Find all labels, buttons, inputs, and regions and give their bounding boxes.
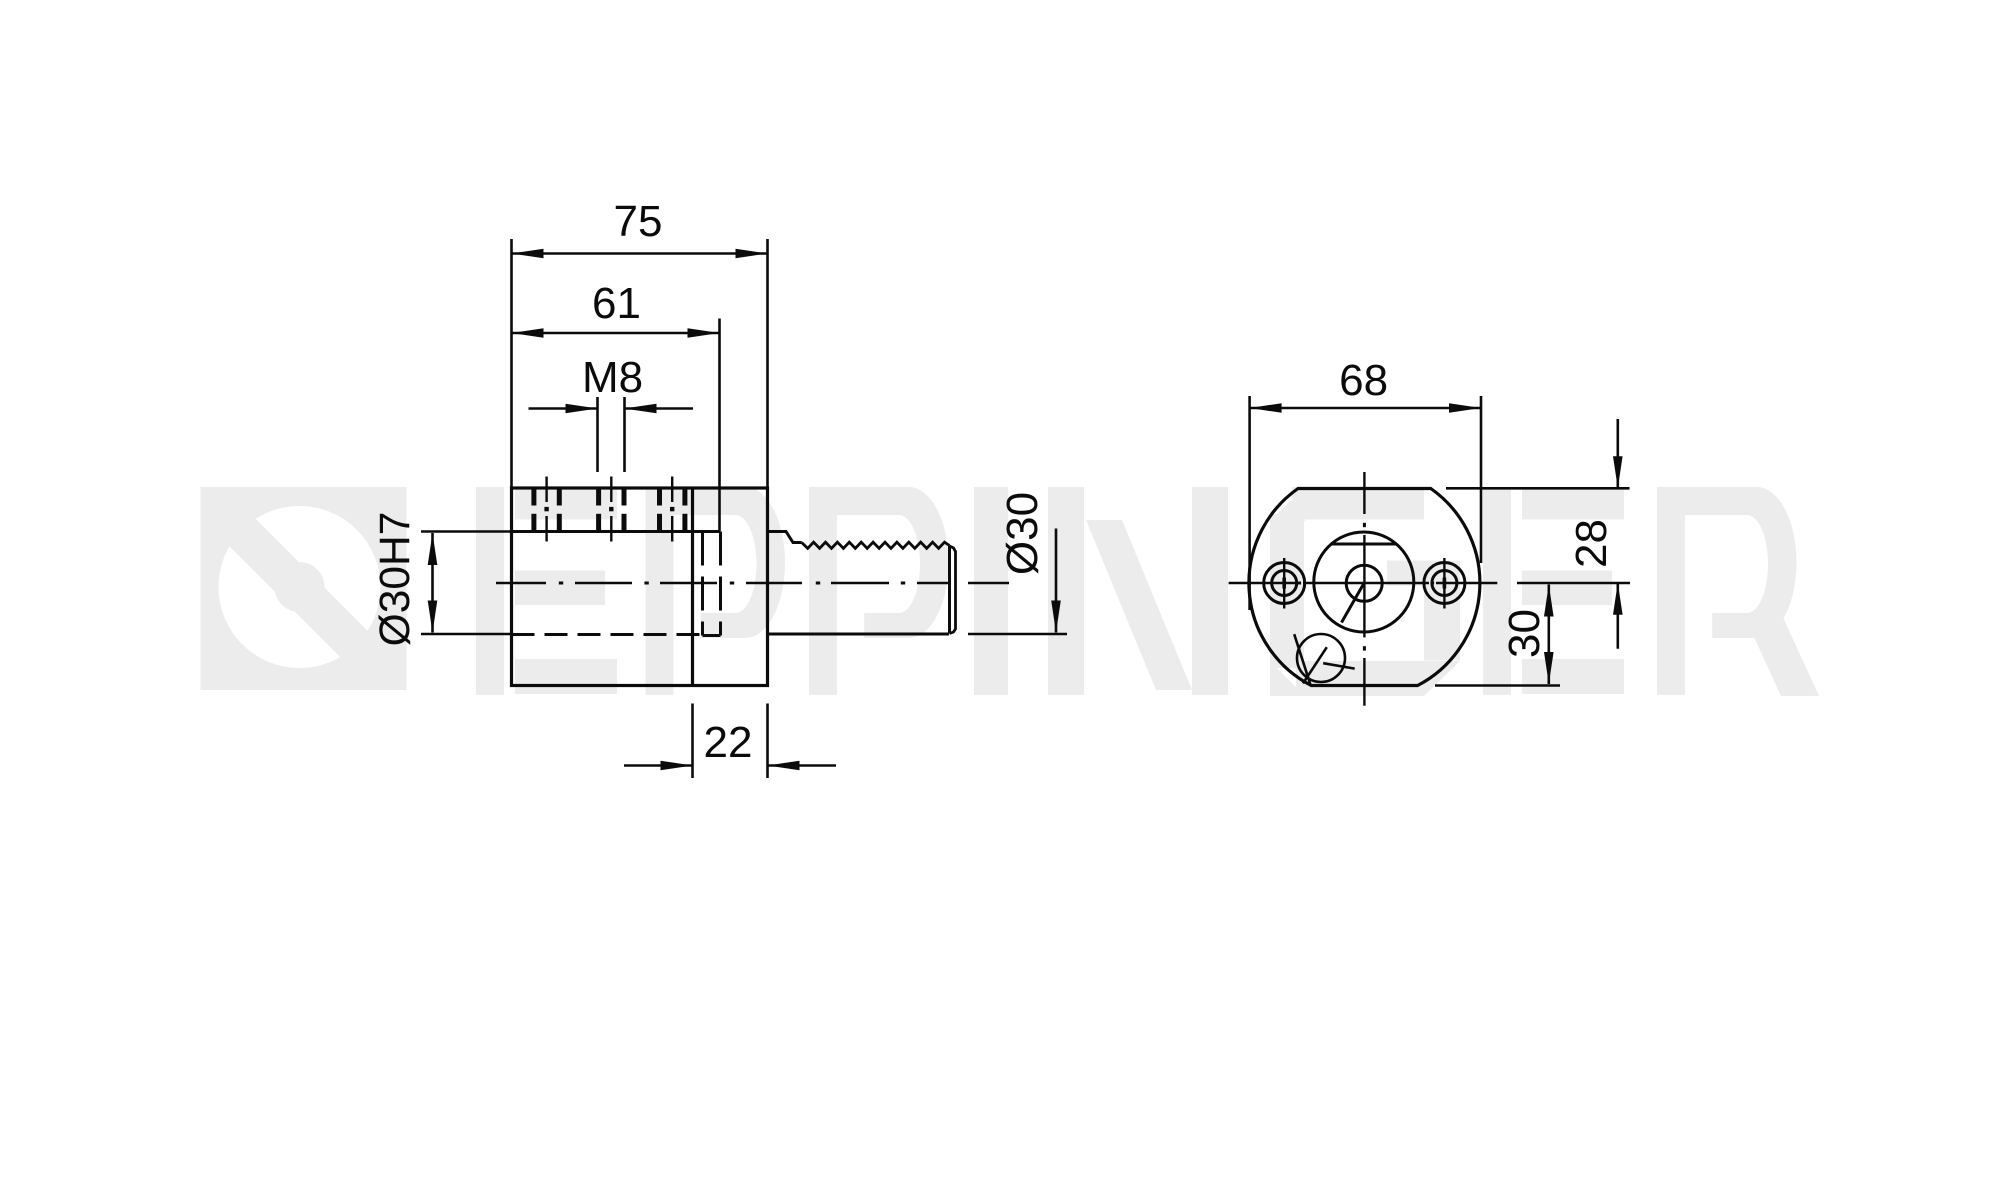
svg-text:Ø30: Ø30 — [998, 492, 1047, 575]
svg-text:30: 30 — [1500, 609, 1549, 658]
svg-text:61: 61 — [592, 279, 641, 328]
svg-text:28: 28 — [1567, 519, 1616, 568]
svg-text:Ø30H7: Ø30H7 — [372, 512, 419, 647]
svg-text:68: 68 — [1339, 356, 1388, 405]
svg-text:75: 75 — [614, 197, 663, 246]
svg-text:22: 22 — [704, 718, 753, 767]
svg-text:M8: M8 — [582, 353, 643, 402]
